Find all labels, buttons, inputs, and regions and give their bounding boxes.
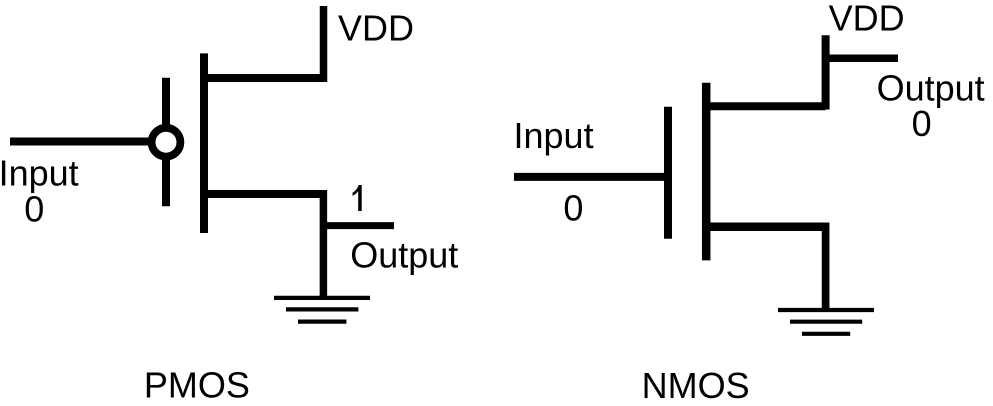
svg-text:0: 0 [563,187,583,228]
svg-text:Input: Input [0,153,79,194]
svg-text:PMOS: PMOS [144,364,250,405]
svg-text:Output: Output [350,235,458,276]
svg-text:0: 0 [24,189,44,230]
svg-text:VDD: VDD [338,7,414,48]
svg-text:VDD: VDD [829,0,905,38]
svg-text:0: 0 [912,103,932,144]
svg-text:NMOS: NMOS [642,365,750,406]
svg-text:Input: Input [514,115,594,156]
